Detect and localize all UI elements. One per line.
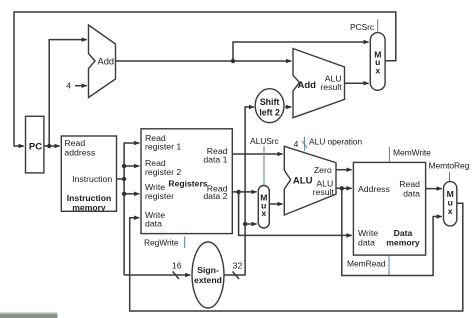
- svg-text:ALUSrc: ALUSrc: [250, 136, 280, 146]
- svg-text:16: 16: [172, 261, 182, 271]
- svg-text:result: result: [313, 187, 335, 197]
- svg-text:register 1: register 1: [145, 142, 181, 152]
- svg-text:PCSrc: PCSrc: [350, 22, 375, 32]
- svg-text:x: x: [375, 66, 380, 76]
- svg-text:Address: Address: [358, 184, 391, 194]
- svg-text:MemWrite: MemWrite: [393, 148, 431, 158]
- svg-text:Add: Add: [298, 80, 317, 91]
- svg-text:4: 4: [66, 81, 71, 91]
- svg-text:extend: extend: [194, 275, 222, 285]
- svg-text:Read: Read: [64, 138, 85, 148]
- svg-text:memory: memory: [72, 203, 106, 213]
- svg-text:x: x: [261, 208, 266, 218]
- svg-text:Registers: Registers: [168, 178, 207, 188]
- svg-text:Instruction: Instruction: [67, 193, 111, 203]
- svg-text:memory: memory: [386, 238, 420, 248]
- svg-text:data 1: data 1: [203, 154, 227, 164]
- svg-text:result: result: [320, 82, 342, 92]
- svg-text:Zero: Zero: [314, 165, 332, 175]
- svg-text:ALU operation: ALU operation: [309, 137, 362, 147]
- svg-text:x: x: [448, 206, 453, 216]
- svg-text:data: data: [145, 219, 162, 229]
- svg-text:MemtoReg: MemtoReg: [429, 161, 470, 171]
- svg-text:register 2: register 2: [145, 167, 181, 177]
- svg-text:left 2: left 2: [259, 108, 280, 118]
- svg-text:Instruction: Instruction: [72, 174, 112, 184]
- svg-text:ALU: ALU: [293, 176, 313, 187]
- svg-text:data: data: [358, 238, 375, 248]
- svg-text:Add: Add: [98, 56, 115, 66]
- svg-text:32: 32: [233, 261, 243, 271]
- svg-text:data 2: data 2: [203, 191, 227, 201]
- svg-text:PC: PC: [29, 141, 42, 152]
- svg-text:data: data: [403, 188, 420, 198]
- svg-text:MemRead: MemRead: [347, 259, 386, 269]
- svg-text:4: 4: [294, 139, 299, 149]
- svg-text:Sign-: Sign-: [197, 265, 219, 275]
- svg-text:address: address: [64, 147, 96, 157]
- svg-text:Shift: Shift: [260, 97, 280, 107]
- svg-text:register: register: [145, 191, 174, 201]
- svg-text:RegWrite: RegWrite: [144, 238, 179, 248]
